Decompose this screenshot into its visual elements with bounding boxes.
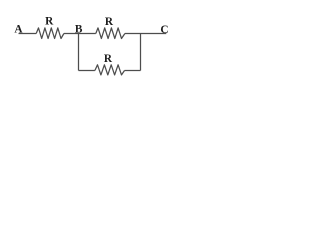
svg-text:R: R <box>45 16 54 28</box>
wire vertical rise to right junction <box>140 34 142 71</box>
svg-text:B: B <box>75 24 83 36</box>
resistor R3 <box>95 65 125 75</box>
wire bottom left <box>79 70 95 72</box>
svg-text:R: R <box>105 16 114 28</box>
svg-text:C: C <box>160 24 168 36</box>
wire vertical drop at node B <box>78 34 80 71</box>
svg-text:R: R <box>104 53 113 65</box>
wire bottom right <box>125 70 141 72</box>
wire R2 to C through right junction <box>125 33 166 35</box>
resistor R1 <box>36 28 64 39</box>
resistor R2 <box>96 28 125 39</box>
wire R1 to R2 through node B <box>64 33 96 35</box>
svg-text:A: A <box>14 24 23 36</box>
wire A to R1 <box>19 33 37 35</box>
